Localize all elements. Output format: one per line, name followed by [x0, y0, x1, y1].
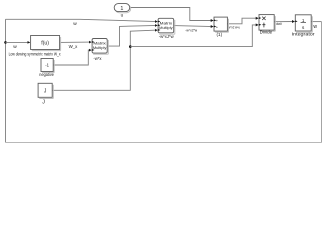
svg-text:Divide: Divide [260, 30, 273, 35]
wire long top w to MatrixMultiply2 in1 [6, 19, 158, 21]
MatrixMultiply2 block [158, 18, 175, 39]
wire f(u) to MatrixMultiply1 in1 [60, 41, 92, 43]
wire Sum out to Divide in1 [227, 18, 258, 24]
svg-text:(1): (1) [216, 32, 222, 37]
wire Divide out to Integrator [274, 21, 294, 23]
wire feedback right rail [321, 22, 323, 143]
svg-text:-w^x2*w: -w^x2*w [185, 27, 197, 32]
svg-text:f(u): f(u) [41, 41, 49, 47]
svg-text:-w*xJ*w: -w*xJ*w [159, 34, 175, 39]
svg-text:Multiply: Multiply [93, 45, 107, 50]
svg-text:W_x: W_x [69, 44, 79, 49]
Integrator block [292, 15, 316, 37]
wire MatrixMultiply1 out to MatrixMultiply2 in2 [107, 25, 157, 46]
svg-text:-w*x: -w*x [93, 56, 102, 61]
svg-text:u: u [121, 13, 124, 18]
svg-text:dwdt: dwdt [276, 21, 282, 26]
svg-text:Integrator: Integrator [292, 32, 316, 37]
wire negative to MatrixMultiply1 in2 [53, 50, 91, 65]
Fcn block f(u) [9, 36, 62, 57]
svg-text:w: w [73, 22, 77, 27]
wire u inport to Sum in1 [130, 8, 214, 21]
wire feedback bottom [6, 142, 322, 144]
constant block J [38, 83, 53, 105]
wire junction to Divide in2 [130, 25, 258, 47]
Divide block [259, 15, 275, 35]
wire integrator output to right rail [311, 21, 321, 23]
wire feedback left rail [5, 19, 7, 142]
svg-text:J: J [42, 100, 45, 106]
Sum block [214, 17, 229, 37]
wire MatrixMultiply2 out to Sum in2 [174, 26, 214, 27]
inport U1 "1" oval [114, 4, 131, 18]
svg-text:w: w [13, 45, 17, 50]
svg-text:w^x2 w+u: w^x2 w+u [228, 25, 240, 30]
svg-text:Multiply: Multiply [159, 25, 173, 30]
wire J out riser to MatrixMultiply2 in3 [52, 30, 157, 90]
MatrixMultiply1 block [92, 39, 108, 61]
svg-text:1: 1 [120, 6, 123, 12]
node junction on left rail [4, 41, 7, 44]
svg-text:w: w [313, 24, 317, 30]
svg-text:1: 1 [302, 18, 305, 23]
svg-text:Low dewing symmetric matrix W_: Low dewing symmetric matrix W_x [9, 51, 62, 56]
svg-text:negative: negative [39, 72, 54, 77]
wire left rail to f(u) [6, 41, 30, 43]
node junction on J riser [129, 45, 132, 48]
constant block negative [39, 59, 54, 78]
svg-text:-1: -1 [45, 62, 49, 67]
